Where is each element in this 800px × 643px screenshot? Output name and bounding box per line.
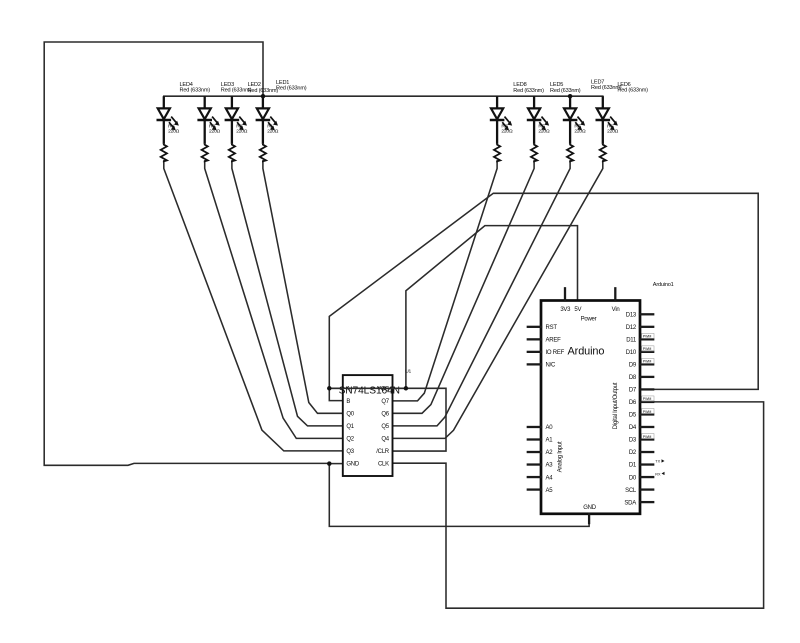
svg-text:Q1: Q1	[346, 424, 354, 430]
svg-text:Vin: Vin	[612, 307, 620, 313]
svg-text:220Ω: 220Ω	[501, 129, 513, 135]
svg-text:R7: R7	[574, 123, 580, 129]
resistor R1 220Ω	[260, 123, 279, 161]
svg-text:Q0: Q0	[346, 412, 354, 418]
wire: Arduino D7 to IC pin A (data), via right/top detour	[329, 193, 758, 389]
svg-text:R1: R1	[267, 123, 273, 129]
svg-text:PWM: PWM	[643, 410, 652, 414]
pin D10 (Arduino right)	[626, 346, 654, 356]
LED LED4 (Red 633nm)	[157, 82, 211, 144]
pin D6 (Arduino right)	[629, 396, 654, 406]
LED LED7 (Red 633nm)	[563, 79, 622, 143]
wire: VCC node to /CLR pin	[393, 388, 447, 451]
pin AREF (Arduino left)	[528, 338, 561, 344]
svg-text:A2: A2	[546, 450, 554, 456]
svg-text:D13: D13	[626, 313, 637, 319]
svg-text:220Ω: 220Ω	[236, 129, 248, 135]
svg-text:A5: A5	[546, 488, 554, 494]
svg-text:PWM: PWM	[643, 397, 652, 401]
wire: R4 to IC Q3	[164, 161, 343, 451]
pin D3 (Arduino right)	[629, 434, 654, 444]
svg-text:SDA: SDA	[624, 500, 636, 506]
svg-text:Red (633nm): Red (633nm)	[180, 88, 211, 94]
svg-text:D3: D3	[629, 438, 637, 444]
pin A0 (Arduino analog)	[528, 425, 553, 431]
svg-text:PWM: PWM	[643, 360, 652, 364]
svg-text:Red (633nm): Red (633nm)	[276, 86, 307, 92]
wire: LED anode bus rail	[164, 95, 603, 97]
svg-text:GND: GND	[346, 462, 360, 468]
svg-text:Q6: Q6	[381, 412, 389, 418]
svg-text:PWM: PWM	[643, 347, 652, 351]
svg-text:220Ω: 220Ω	[538, 129, 550, 135]
junction: bus at LED7	[568, 94, 573, 99]
svg-text:PWM: PWM	[643, 435, 652, 439]
pin D4 (Arduino right)	[629, 425, 653, 431]
svg-text:D12: D12	[626, 325, 637, 331]
resistor R2 220Ω	[229, 123, 248, 161]
pin A4 (Arduino analog)	[528, 475, 553, 481]
svg-text:D8: D8	[629, 375, 637, 381]
pin D9 (Arduino right)	[629, 358, 654, 368]
svg-text:R2: R2	[236, 123, 242, 129]
svg-text:SN74LS164N: SN74LS164N	[339, 386, 400, 397]
pin D7 (Arduino right)	[629, 388, 653, 394]
svg-text:Q7: Q7	[381, 399, 389, 405]
svg-text:RST: RST	[546, 325, 558, 331]
wire: node A down to pin B	[329, 388, 343, 400]
svg-text:Red (633nm): Red (633nm)	[248, 88, 279, 94]
svg-text:Q2: Q2	[346, 437, 354, 443]
pin SCL (Arduino right)	[625, 488, 653, 494]
svg-text:A0: A0	[546, 425, 554, 431]
pin D5 (Arduino right)	[629, 408, 654, 418]
wire: bus up to top rail, around left side down to IC GND row	[44, 42, 329, 465]
wire: R5 to IC Q6	[393, 161, 535, 413]
svg-text:3V3: 3V3	[560, 307, 571, 313]
wire: VCC pin stub	[393, 387, 406, 389]
pin D13 (Arduino right)	[626, 313, 653, 319]
svg-text:PWM: PWM	[643, 335, 652, 339]
LED LED1 (Red 633nm)	[256, 80, 307, 144]
svg-text:D1: D1	[629, 463, 637, 469]
svg-text:RX: RX	[655, 472, 661, 476]
pin GND (Arduino bottom) / ground stub	[588, 514, 590, 523]
svg-text:IO REF: IO REF	[546, 350, 565, 356]
svg-text:Red (633nm): Red (633nm)	[617, 88, 648, 94]
pin D8 (Arduino right)	[629, 375, 653, 381]
wire: A-row net crossing IC title	[329, 387, 406, 389]
pin A2 (Arduino analog)	[528, 450, 553, 456]
wire: GND stub into IC	[329, 463, 343, 465]
wire: R3 to IC Q2	[205, 161, 343, 439]
svg-text:CLK: CLK	[378, 462, 389, 468]
LED LED5 (Red 633nm)	[527, 82, 581, 144]
pin D0 (Arduino right)	[629, 472, 665, 482]
op Arduino1 board body	[541, 301, 640, 514]
svg-text:D0: D0	[629, 475, 637, 481]
svg-text:D7: D7	[629, 388, 637, 394]
svg-text:R6: R6	[607, 123, 613, 129]
resistor R8 220Ω	[494, 123, 513, 161]
svg-text:D9: D9	[629, 363, 637, 369]
pin D11 (Arduino right)	[626, 333, 654, 343]
svg-text:Q4: Q4	[381, 437, 389, 443]
svg-text:TX: TX	[655, 460, 660, 464]
node VCC (5V//CLR tie)	[404, 386, 409, 391]
resistor R7 220Ω	[567, 123, 586, 161]
pin RST (Arduino left)	[528, 325, 558, 331]
svg-text:220Ω: 220Ω	[168, 129, 180, 135]
svg-text:220Ω: 220Ω	[607, 129, 619, 135]
LED LED3 (Red 633nm)	[197, 82, 251, 144]
pin A3 (Arduino analog)	[528, 463, 553, 469]
svg-text:D11: D11	[626, 338, 637, 344]
svg-text:B: B	[346, 399, 350, 405]
pin IO REF (Arduino left)	[528, 350, 565, 356]
svg-text:220Ω: 220Ω	[209, 129, 221, 135]
resistor R3 220Ω	[202, 123, 221, 161]
wire: R6 to IC Q4	[393, 161, 603, 439]
svg-text:Q5: Q5	[381, 424, 389, 430]
pin N/C (Arduino left)	[528, 363, 556, 369]
LED LED8 (Red 633nm)	[490, 82, 544, 144]
svg-text:A3: A3	[546, 463, 554, 469]
op IC U1 SN74LS164N shift register body	[343, 375, 393, 476]
svg-text:Analog Input: Analog Input	[558, 441, 564, 472]
pin SDA (Arduino right)	[624, 500, 653, 506]
svg-text:AREF: AREF	[546, 338, 562, 344]
svg-text:R3: R3	[209, 123, 215, 129]
pin D2 (Arduino right)	[629, 450, 653, 456]
svg-text:Arduino: Arduino	[568, 346, 605, 358]
svg-text:220Ω: 220Ω	[267, 129, 279, 135]
svg-text:N/C: N/C	[546, 363, 557, 369]
LED LED2 (Red 633nm)	[225, 82, 279, 144]
svg-text:D5: D5	[629, 413, 637, 419]
svg-text:Red (633nm): Red (633nm)	[513, 88, 544, 94]
junction: bus / top rail at LED1	[261, 94, 266, 99]
resistor R6 220Ω	[600, 123, 619, 161]
resistor R4 220Ω	[161, 123, 180, 161]
svg-text:Arduino1: Arduino1	[653, 282, 674, 288]
wire: R7 to IC Q5	[393, 161, 571, 426]
wire: pin A stub	[329, 387, 343, 389]
wire: R2 to IC Q1	[232, 161, 343, 426]
pin D12 (Arduino right)	[626, 325, 653, 331]
svg-text:A1: A1	[546, 438, 554, 444]
svg-text:Q3: Q3	[346, 449, 354, 455]
svg-text:D6: D6	[629, 400, 637, 406]
pin D1 (Arduino right)	[629, 459, 665, 469]
svg-text:Digital Input/Output: Digital Input/Output	[613, 382, 619, 429]
node GND at IC	[327, 461, 332, 466]
svg-text:R4: R4	[168, 123, 174, 129]
wire: Arduino 5V down to IC VCC	[406, 226, 578, 389]
svg-text:U1: U1	[405, 368, 411, 374]
pin Vin (Arduino top)	[612, 288, 620, 313]
pin A5 (Arduino analog)	[528, 488, 553, 494]
node A (D7/A/B tie)	[327, 386, 332, 391]
svg-text:D10: D10	[626, 350, 637, 356]
LED LED6 (Red 633nm)	[596, 82, 649, 144]
svg-text:D4: D4	[629, 425, 637, 431]
wire: IC CLK to Arduino D6 via bottom detour	[393, 402, 764, 608]
pin 3V3 (Arduino top)	[560, 288, 571, 313]
svg-text:D2: D2	[629, 450, 637, 456]
pin A1 (Arduino analog)	[528, 438, 553, 444]
pin 5V (Arduino top)	[574, 307, 581, 313]
svg-text:SCL: SCL	[625, 488, 637, 494]
wire: GND run from IC down and right to Arduino GND	[329, 463, 589, 526]
svg-text:Red (633nm): Red (633nm)	[550, 88, 581, 94]
svg-text:Power: Power	[581, 316, 597, 322]
wire: R1 to IC Q0	[263, 161, 343, 413]
svg-text:A4: A4	[546, 475, 554, 481]
resistor R5 220Ω	[531, 123, 550, 161]
svg-text:/CLR: /CLR	[376, 449, 390, 455]
svg-text:R8: R8	[501, 123, 507, 129]
svg-text:5V: 5V	[574, 307, 581, 313]
svg-text:GND: GND	[583, 505, 597, 511]
svg-text:R5: R5	[538, 123, 544, 129]
wire: R8 to IC Q7	[393, 161, 498, 401]
svg-text:220Ω: 220Ω	[574, 129, 586, 135]
